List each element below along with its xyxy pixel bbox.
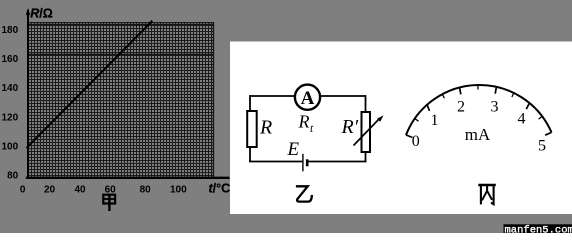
svg-text:E: E	[287, 139, 300, 160]
svg-text:4: 4	[518, 111, 526, 128]
svg-text:3: 3	[491, 98, 499, 115]
svg-text:160: 160	[2, 54, 19, 65]
svg-text:R/Ω: R/Ω	[30, 7, 53, 21]
svg-text:100: 100	[2, 142, 19, 153]
svg-text:5: 5	[538, 138, 546, 155]
svg-text:t/°C: t/°C	[209, 182, 231, 196]
svg-text:R: R	[259, 117, 272, 139]
svg-text:140: 140	[2, 83, 19, 94]
svg-text:20: 20	[44, 184, 56, 195]
svg-text:0: 0	[412, 133, 420, 150]
svg-text:A: A	[301, 88, 315, 109]
svg-text:2: 2	[457, 98, 465, 115]
svg-text:0: 0	[20, 184, 26, 195]
svg-text:manfen5.com: manfen5.com	[505, 225, 572, 234]
svg-text:R′: R′	[341, 116, 359, 138]
svg-text:1: 1	[431, 112, 439, 129]
svg-text:120: 120	[2, 112, 19, 123]
svg-text:80: 80	[7, 171, 19, 182]
svg-text:40: 40	[74, 184, 86, 195]
svg-text:80: 80	[140, 184, 152, 195]
svg-text:100: 100	[170, 184, 187, 195]
svg-text:180: 180	[2, 25, 19, 36]
svg-text:mA: mA	[465, 125, 491, 144]
